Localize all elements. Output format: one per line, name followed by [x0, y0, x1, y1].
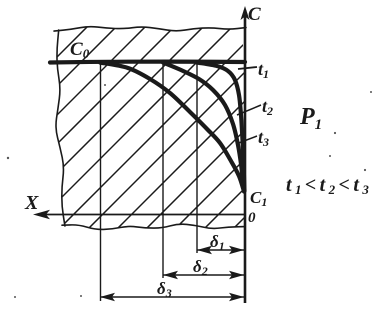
leader for t3 — [236, 136, 257, 144]
concentration curve t3 — [100, 63, 244, 192]
C0 concentration level line — [50, 59, 245, 64]
leader for t2 — [237, 105, 261, 115]
torn left edge of body — [56, 30, 65, 226]
tick for t1 — [238, 67, 257, 69]
svg-text:X: X — [24, 192, 39, 214]
extension line delta3 at x=100 — [100, 63, 102, 301]
x axis line — [37, 214, 245, 216]
extension line delta1 at x=197 — [196, 63, 198, 253]
C axis line — [244, 10, 247, 303]
hatched solid body region — [0, 18, 377, 238]
C axis arrowhead — [241, 6, 250, 20]
torn top edge of body — [54, 27, 246, 31]
dimension line delta2 — [163, 274, 244, 276]
concentration curve t2 — [163, 63, 244, 192]
torn bottom edge of body — [62, 224, 245, 229]
dimension line delta1 — [197, 249, 244, 251]
scan noise specks (decorative) — [7, 157, 9, 159]
x axis arrowhead — [33, 210, 50, 219]
dimension line delta3 — [100, 296, 244, 298]
svg-text:C: C — [248, 4, 261, 25]
extension line delta2 at x=163 — [162, 63, 164, 278]
concentration curve t1 — [197, 63, 245, 192]
svg-text:0: 0 — [248, 210, 256, 226]
